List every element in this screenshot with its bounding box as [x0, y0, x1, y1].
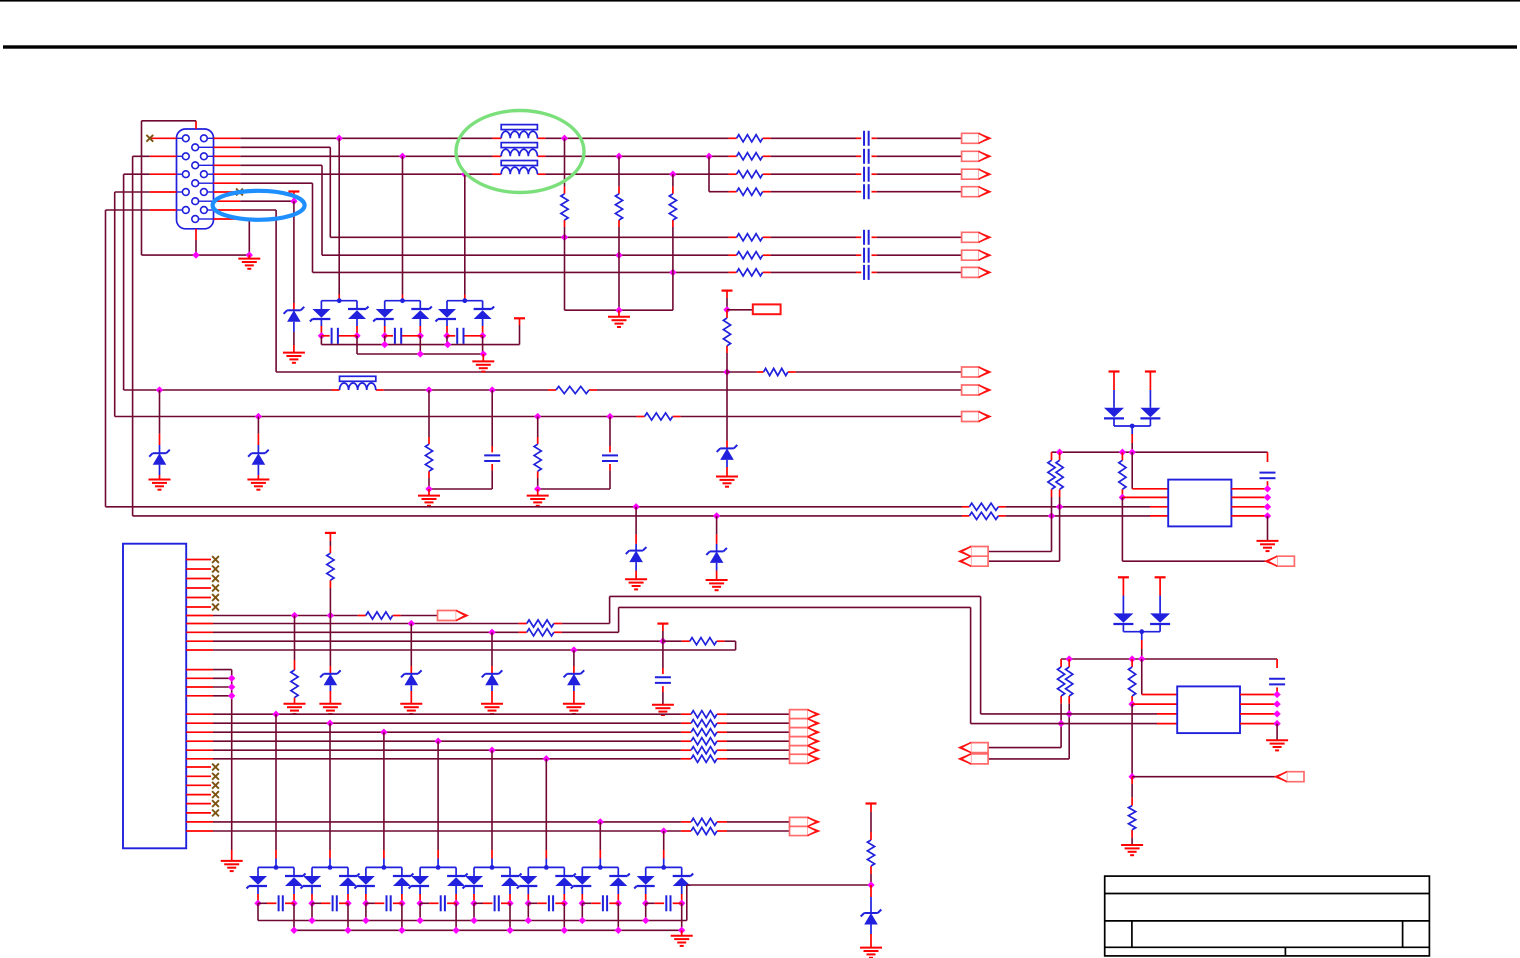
ground G7 module bus2	[472, 354, 494, 372]
resistor R22 top lead	[618, 156, 620, 186]
wire data row 3 to port	[727, 731, 790, 733]
capacitor CB6 leads	[528, 902, 564, 904]
capacitor C41 red leads	[491, 446, 493, 470]
ground under zener D8	[400, 704, 422, 714]
junction module BM7 feed	[597, 818, 604, 825]
capacitor C15 leads	[856, 236, 877, 238]
zener D7 top lead	[329, 616, 331, 667]
wire R23 to lower row	[672, 227, 674, 272]
wire aux row 8	[213, 830, 681, 832]
diode DP2a	[1113, 613, 1133, 624]
junction module BM6 feed	[543, 755, 550, 762]
capacitor CB2	[333, 895, 337, 911]
diode pair DP1b lead	[1149, 390, 1151, 408]
resistor R17 leads	[729, 271, 771, 273]
junction IC1 out1	[1264, 485, 1271, 492]
wire R54 to port	[989, 497, 1060, 561]
zener D4 ground lead	[726, 467, 728, 477]
IC2 right pin leads	[1240, 695, 1277, 724]
wire IC1 right rail to ground	[1267, 516, 1269, 541]
wire T6 to R80	[870, 812, 872, 832]
inductor L2 (ferrite bead)	[501, 143, 537, 157]
wire BM6 left col down	[527, 903, 529, 920]
port output row 1	[962, 133, 991, 143]
wire row4 u-turn	[725, 641, 736, 650]
diode module DM2 center node	[400, 298, 405, 303]
junction BM2 cap right	[344, 900, 351, 907]
diode BM7a	[571, 876, 592, 889]
capacitor C13	[864, 167, 869, 182]
module BM6 bracket	[528, 867, 564, 876]
port output data 2	[790, 719, 819, 728]
port output data 1	[790, 710, 819, 719]
IC1 pin4 red lead	[1150, 515, 1168, 517]
resistor R30	[764, 368, 788, 375]
wire DM2 right col down	[419, 336, 421, 354]
zener D6 red lead	[716, 534, 718, 544]
resistor R42 bottom	[537, 478, 539, 489]
diode pair DP2 bracket	[1123, 624, 1160, 632]
resistor R33 red leads	[726, 310, 728, 353]
wire data row 4 to port	[727, 740, 790, 742]
junction R60 on port row	[327, 612, 334, 619]
wire sync row 7 segment b	[771, 271, 856, 273]
wire RC pair A bottom	[429, 488, 492, 490]
port input P2	[959, 556, 988, 566]
inductor L3 (ferrite bead)	[501, 161, 537, 175]
junction BM8 cap left	[642, 900, 649, 907]
module BM3 bracket	[366, 867, 402, 876]
resistor R71 leads	[681, 713, 727, 715]
ground G15 under R59	[1121, 845, 1143, 855]
junction IC2 out2	[1273, 700, 1280, 707]
wire J2 gnd pin2	[213, 677, 232, 679]
wire BM4 right col down	[455, 903, 457, 930]
capacitor C15	[864, 230, 869, 245]
junction module BM3 feed	[380, 729, 387, 736]
diode BM8b	[673, 874, 694, 887]
module BM6 feed red	[545, 850, 547, 867]
resistor R43 leads	[637, 416, 681, 418]
IC1 box U1	[1168, 480, 1231, 527]
resistor R23 red leads	[672, 187, 674, 227]
capacitor C51 top lead	[1267, 452, 1269, 462]
resistor R15	[737, 234, 763, 241]
wire pin row 201 to node	[240, 200, 294, 202]
ground G11 under C60	[652, 705, 674, 715]
junction node885	[867, 881, 874, 888]
diode DM3b	[474, 307, 495, 320]
zener D7 bottom lead	[329, 685, 331, 691]
wire video row 3 segment c	[771, 173, 856, 175]
zener D11 bottom lead	[870, 925, 872, 948]
wire data row 2 to port	[727, 722, 790, 724]
junction BM6 cap left	[525, 900, 532, 907]
wire pin row 210 to row372	[240, 210, 728, 372]
capacitor CB4	[441, 895, 445, 911]
resistor R65 leads	[682, 640, 725, 642]
diode pair DP2a lead	[1122, 596, 1124, 614]
junction BM6 cap right	[561, 900, 568, 907]
module BM8 bracket	[646, 867, 682, 876]
junction C41 on row A	[489, 386, 496, 393]
junction R-column sync row 7	[669, 269, 676, 276]
terminal T6 stem	[870, 804, 872, 813]
junction R-column sync row 6	[615, 252, 622, 259]
wire T5 to row4	[662, 631, 664, 641]
zener diode D4	[717, 445, 738, 460]
terminal T2 stem	[726, 291, 728, 298]
wire video row 1 segment d	[877, 137, 962, 139]
capacitor C11 leads	[856, 137, 877, 139]
diode DM1b	[348, 307, 369, 320]
junction C42 on row B	[606, 413, 613, 420]
zener D6 bottom lead	[716, 563, 718, 571]
capacitor C11	[864, 131, 869, 146]
diode BM8a	[634, 876, 655, 889]
capacitor C42 top lead	[609, 417, 611, 447]
wire data row 6	[213, 758, 681, 760]
wire data row 3	[213, 731, 681, 733]
module BM1 feed red	[275, 850, 277, 867]
wire pin4 left vertical to SDA bus	[133, 156, 150, 516]
diode pair DP2 node	[1139, 629, 1144, 634]
resistor R41 red leads	[428, 437, 430, 478]
port output aux 8	[790, 826, 819, 835]
wire row A segment b	[384, 389, 548, 391]
port input P5	[959, 754, 988, 764]
wire data row 2	[213, 722, 681, 724]
diode pair DP1 down lead	[1131, 426, 1133, 443]
junction R58 pin2 node	[1128, 700, 1135, 707]
port output P3	[1266, 556, 1295, 566]
diode module BM4 feed	[437, 741, 439, 850]
no-connect X on pin row 138	[146, 135, 153, 142]
junction gnd bus pin2	[228, 675, 235, 682]
resistor R22 red leads	[618, 187, 620, 227]
resistor R33 bottom to row372	[726, 353, 728, 372]
resistor R78 leads	[681, 830, 727, 832]
title block	[1105, 876, 1430, 956]
port output sync row 7	[962, 267, 991, 277]
zener D5 blue lead	[635, 544, 637, 551]
resistor R73 leads	[681, 731, 727, 733]
diode pair DP2 down lead	[1141, 632, 1143, 649]
capacitor CM3	[457, 328, 463, 344]
resistor R78	[691, 827, 717, 834]
capacitor C52 top lead	[1276, 659, 1278, 668]
ground G8 IC1	[1257, 541, 1279, 551]
module BM2 feed red	[329, 850, 331, 867]
wire J2 row1 (port row)	[213, 615, 358, 617]
IC2 pin1 red lead	[1142, 694, 1177, 696]
diode DM2b	[411, 307, 432, 320]
wire row2 jog to block2	[562, 596, 981, 714]
diode BM1b lower lead	[293, 886, 295, 903]
module BM8 feed red	[663, 850, 665, 867]
capacitor C42 bottom	[609, 470, 611, 489]
diode pair DP1a terminal	[1109, 372, 1120, 391]
resistor R21 top lead	[564, 138, 566, 186]
terminal T1 stem	[293, 192, 295, 202]
wire pin8 left vertical to row B	[115, 192, 150, 417]
wire SDA bus (bus2)	[133, 515, 962, 517]
wire BM4 left col down	[419, 903, 421, 920]
wire sync row 5 segment a	[330, 236, 728, 238]
capacitor C42 red leads	[609, 446, 611, 470]
resistor R72 leads	[681, 722, 727, 724]
junction bus1 DM3	[444, 341, 451, 348]
capacitor CM1	[332, 328, 338, 344]
resistor R53	[1048, 460, 1055, 489]
resistor R51 leads (bus1)	[962, 506, 1006, 508]
wire sync row 5 segment b	[771, 236, 856, 238]
diode module BM3 feed	[383, 732, 385, 850]
zener D9 top lead	[491, 632, 493, 666]
zener D5 bottom lead	[635, 562, 637, 570]
capacitor CM2 leads	[385, 335, 421, 337]
terminal T2	[722, 290, 733, 292]
ground G4 RC pair A	[418, 489, 440, 506]
zener diode D7	[320, 670, 341, 685]
resistor R64	[527, 629, 554, 636]
junction BM5 cap left	[470, 900, 477, 907]
diode DM3b lower lead	[482, 319, 484, 336]
wire pin10 left vertical to SCL bus	[106, 210, 150, 507]
junction IC2 out4	[1273, 720, 1280, 727]
diode module BM8 feed	[663, 831, 665, 850]
resistor R57 red leads	[1068, 659, 1070, 704]
wire BM7 left col down	[581, 903, 583, 920]
wire video row 1 segment b	[545, 137, 728, 139]
zener D11 red lead	[870, 885, 872, 913]
wire termination bus	[565, 309, 673, 311]
resistor R42	[534, 444, 541, 471]
capacitor C60 bottom lead	[662, 692, 664, 705]
connector J1 pins	[177, 135, 214, 223]
value label box	[753, 304, 781, 314]
resistor R22	[615, 194, 622, 220]
diode module BM5 feed	[491, 750, 493, 850]
ground G12 J2 bus	[221, 861, 243, 871]
wire data row 4	[213, 740, 681, 742]
module BM7 feed red	[599, 850, 601, 867]
wire DP2 node to pin1	[1141, 659, 1143, 695]
resistor R23 top lead	[672, 174, 674, 186]
capacitor CB8 leads	[646, 902, 682, 904]
wire BM5 right col down	[509, 903, 511, 930]
resistor R12	[737, 153, 763, 160]
wire bus1' to IC2	[981, 713, 1157, 715]
ground G16 IC2	[1266, 740, 1288, 750]
ground G2 termination bus	[608, 310, 630, 327]
diode pair DP1 bracket	[1114, 418, 1150, 426]
port output sync row 5	[962, 232, 991, 242]
wire RC pair B bottom	[538, 488, 610, 490]
connector J2 body	[123, 544, 186, 849]
zener D2 red lead	[159, 434, 161, 453]
zener D6 blue lead	[716, 544, 718, 552]
capacitor C16	[864, 248, 869, 263]
wire module bus A	[258, 885, 871, 921]
junction diode-array feed row 2	[399, 153, 406, 160]
resistor R57	[1066, 667, 1073, 696]
resistor R75	[691, 747, 717, 754]
resistor R15 leads	[729, 236, 771, 238]
wire sync row 7 segment a	[313, 271, 729, 273]
zener D8 red lead	[410, 666, 412, 674]
zener diode D9	[482, 670, 503, 685]
wire BM3 left col down	[365, 903, 367, 920]
wire data row 5	[213, 749, 681, 751]
diode BM6a lower lead	[527, 886, 529, 903]
wire R21 to termination bus	[564, 237, 566, 310]
ground under D2	[149, 480, 171, 490]
wire node to port P6	[1132, 776, 1277, 778]
wire row372 segment b	[727, 371, 757, 373]
wire BM1 left col down	[257, 903, 259, 920]
resistor R53 red leads	[1051, 452, 1053, 497]
resistor R58	[1129, 667, 1136, 696]
junction zener D6 on bus2	[713, 512, 720, 519]
zener D4 bottom lead	[726, 460, 728, 467]
wire video row 1 segment a	[240, 137, 492, 139]
wire T2 to node	[726, 298, 728, 310]
wire row B segment b	[681, 416, 962, 418]
zener D6 top lead	[716, 516, 718, 535]
junction BM8 cap right	[678, 900, 685, 907]
resistor R17	[737, 269, 763, 276]
junction C60 on row4	[659, 638, 666, 645]
junction gnd bus pin3	[228, 683, 235, 690]
wire bus1 to T3	[519, 325, 521, 345]
junctions module bus B	[290, 927, 622, 934]
terminal T5 stem	[662, 624, 664, 631]
wire T4 to R60	[329, 541, 331, 546]
zener D1 bottom lead	[293, 322, 295, 345]
junction module BM4 feed	[434, 738, 441, 745]
wire row452	[1052, 451, 1268, 453]
resistor R63 leads	[519, 623, 562, 625]
inductor L4 leads	[332, 389, 384, 391]
zener D7 ground lead	[329, 691, 331, 704]
wire R60 to port row	[329, 588, 331, 616]
zener D8 bottom lead	[410, 685, 412, 691]
junction BM1 cap right	[290, 900, 297, 907]
diode BM6b	[555, 874, 576, 887]
resistor R40 leads	[548, 389, 597, 391]
highlight ellipse blue	[213, 191, 305, 220]
wire video row 2 segment a	[240, 155, 492, 157]
port output data 5	[790, 746, 819, 755]
capacitor C17	[864, 265, 869, 280]
diode module DM1 center node	[337, 298, 342, 303]
inductor L1 red leads	[493, 137, 546, 139]
zener diode D6	[706, 548, 727, 563]
capacitor C60 top lead	[662, 641, 664, 668]
resistor R16 leads	[729, 254, 771, 256]
wire ground row GNDROW	[142, 254, 250, 256]
capacitor CM1 leads	[321, 335, 357, 337]
diode BM1a	[247, 876, 268, 889]
wire to R59	[1131, 784, 1133, 798]
IC2 pin4 red lead	[1157, 723, 1177, 725]
capacitor C41 bottom	[491, 470, 493, 489]
junction RC pair B ground	[534, 485, 541, 492]
diode BM6a	[517, 876, 538, 889]
junction DM2 cap right	[417, 332, 424, 339]
module BM3 feed red	[383, 850, 385, 867]
capacitor C51	[1260, 473, 1276, 479]
zener D10 bottom lead	[573, 685, 575, 691]
diode BM3a	[354, 876, 375, 889]
wire pin row to sync row 7	[240, 183, 312, 272]
resistor R65	[690, 638, 717, 645]
resistor R11	[737, 135, 763, 142]
module BM5 node	[490, 865, 495, 870]
terminal T5	[657, 622, 668, 624]
junction R-column sync row 5	[561, 234, 568, 241]
diode BM1b	[285, 874, 306, 887]
junction row659 DP2	[1138, 655, 1145, 662]
diode module BM7 feed	[599, 822, 601, 850]
zener D6 ground lead	[716, 571, 718, 581]
wire port row segment	[401, 615, 438, 617]
wire pin6 left vertical to row A	[124, 174, 150, 390]
junction zener D8 row2	[408, 620, 415, 627]
resistor R13	[737, 171, 763, 178]
resistor R77 leads	[681, 821, 727, 823]
capacitor C16 leads	[856, 254, 877, 256]
terminal T6	[866, 802, 877, 804]
capacitor CB1	[279, 895, 283, 911]
junction row4 feed on row 2	[705, 153, 712, 160]
diode BM2a	[301, 876, 322, 889]
junction BM4 cap right	[452, 900, 459, 907]
wire R53 to port	[989, 497, 1052, 552]
wire row659	[1061, 658, 1277, 660]
resistor R21	[561, 194, 568, 220]
wire row4 segment	[771, 191, 856, 193]
resistor R59	[1129, 806, 1136, 830]
junction bus2' R56	[1057, 720, 1064, 727]
zener D9 red lead	[491, 666, 493, 674]
zener diode D1	[284, 307, 305, 322]
junction BM5 cap right	[506, 900, 513, 907]
wire node to label box	[727, 309, 753, 311]
junction IC1 out2	[1264, 494, 1271, 501]
diode DM1b lower lead	[356, 319, 358, 336]
resistor R51	[969, 503, 998, 510]
wire DM3 left col down	[446, 336, 448, 345]
resistor R63	[527, 620, 554, 627]
connector J1 shield bottom stub	[195, 229, 197, 240]
IC1 pin2 red lead	[1122, 496, 1168, 498]
diode DM3a lower lead	[446, 319, 448, 336]
page top border line	[0, 0, 1520, 2]
module BM4 node	[436, 865, 441, 870]
capacitor C13 leads	[856, 173, 877, 175]
wire pin15 down to ground row	[241, 219, 250, 255]
resistor R42 top lead	[537, 417, 539, 438]
wire bus2 to IC1	[1006, 515, 1150, 517]
zener D7 red lead	[329, 666, 331, 674]
junction DM1 cap right	[353, 332, 360, 339]
ground under D3	[247, 480, 269, 490]
capacitor C12	[864, 149, 869, 164]
diode BM4a	[409, 876, 430, 889]
wire BM3 right col down	[401, 903, 403, 930]
